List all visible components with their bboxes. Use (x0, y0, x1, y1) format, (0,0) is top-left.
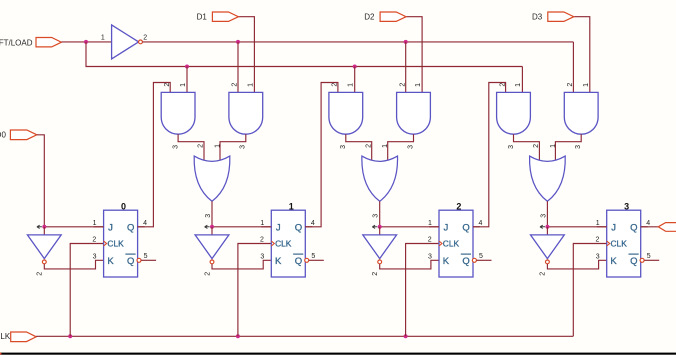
wire: load AND out to OR (stage 3) (555, 134, 581, 160)
svg-text:1: 1 (101, 35, 105, 42)
inverter N2 output bubble (378, 260, 382, 264)
clock wedge, U2 (271, 241, 274, 246)
svg-text:3: 3 (624, 202, 629, 212)
svg-text:3: 3 (260, 253, 264, 260)
svg-text:K: K (107, 256, 114, 267)
wire: D3 to AND (stage 3) (574, 17, 590, 93)
inverter N3 output bubble (546, 260, 550, 264)
wire: CLK riser to FF1 (238, 244, 271, 337)
svg-text:2: 2 (332, 83, 339, 87)
output connector Q3 (clipped at right edge) (658, 223, 676, 232)
wire Q pin stub, U2 (305, 226, 312, 228)
svg-text:J: J (108, 222, 113, 233)
svg-text:2: 2 (567, 83, 574, 87)
svg-text:5: 5 (144, 253, 148, 260)
svg-text:1: 1 (289, 202, 294, 212)
input connector D0 (10, 130, 36, 140)
wire Q pin stub, U4 (641, 226, 648, 228)
svg-text:2: 2 (92, 237, 96, 244)
wire: shift AND out to OR (stage 2) (346, 134, 372, 160)
svg-text:D2: D2 (364, 13, 375, 22)
wire: shift AND out to OR (stage 3) (514, 134, 540, 160)
node J2 junction (378, 225, 382, 229)
clock wedge, U4 (607, 241, 610, 246)
svg-text:1: 1 (428, 220, 432, 227)
svg-text:2: 2 (428, 237, 432, 244)
Q-bar inversion bubble, U1 (137, 258, 141, 262)
window border bar (0, 353, 676, 355)
AND gate U3A shift-enable, stage 3 (497, 92, 531, 134)
wire J pin stub, U4 (597, 226, 607, 228)
svg-text:2: 2 (456, 202, 461, 212)
svg-text:4: 4 (311, 220, 315, 227)
wire: D2 to AND (stage 2) (406, 17, 422, 93)
svg-text:CLK: CLK (611, 238, 628, 248)
input connector D3 (548, 12, 574, 21)
svg-text:3: 3 (205, 214, 212, 218)
wire J pin stub, U1 (94, 226, 104, 228)
svg-text:3: 3 (407, 145, 414, 149)
Q-bar inversion bubble, U3 (472, 258, 476, 262)
inverter N2 (vertical, J to K) (363, 235, 397, 259)
inverter N3 (vertical, J to K) (531, 235, 565, 259)
svg-text:Q: Q (630, 222, 637, 233)
wire: D1 to AND (stage 1) (238, 17, 254, 93)
wire: shift-enable tap to AND (stage 3) (521, 67, 523, 93)
svg-text:1: 1 (93, 220, 97, 227)
svg-text:3: 3 (240, 145, 247, 149)
wire Q pin stub, U1 (138, 226, 145, 228)
svg-text:1: 1 (248, 83, 255, 87)
JK flip-flop U2 (1) (271, 210, 305, 277)
wire: inverter 2 out to K2 (380, 260, 439, 269)
node J0 junction (42, 225, 46, 229)
AND gate U1B load-enable, stage 1 (229, 92, 263, 134)
svg-text:Q: Q (127, 222, 134, 233)
wire: Q2 feedback to AND (473, 83, 506, 227)
svg-text:3: 3 (540, 214, 547, 218)
svg-text:J: J (276, 222, 281, 233)
svg-text:2: 2 (540, 272, 547, 276)
JK flip-flop U1 (0) (104, 210, 138, 277)
wire Q-bar pin stub, U1 (141, 259, 156, 261)
node: shift/load branch junction (84, 40, 88, 44)
svg-text:3: 3 (93, 253, 97, 260)
svg-text:1: 1 (180, 83, 187, 87)
svg-text:2: 2 (143, 35, 147, 42)
svg-text:CLK: CLK (0, 332, 11, 341)
JK flip-flop U3 (2) (439, 210, 473, 277)
inverter U5 (horizontal) (112, 25, 139, 59)
wire-end arrow at node J3 (540, 225, 545, 228)
wire: load-enable tap to AND (stage 3) (572, 42, 574, 93)
svg-text:2: 2 (399, 83, 406, 87)
svg-text:Q: Q (295, 256, 302, 267)
wire: Q3 to output connector (641, 226, 659, 228)
wire-end arrow at node J1 (205, 225, 210, 228)
wire: load-enable tap to AND (stage 2) (405, 42, 407, 93)
wire J pin stub, U2 (261, 226, 271, 228)
AND gate U2B load-enable, stage 2 (397, 92, 431, 134)
wire: Q1 feedback to AND (305, 83, 338, 227)
svg-text:1: 1 (382, 144, 389, 148)
input connector CLK (11, 332, 37, 342)
svg-text:1: 1 (348, 83, 355, 87)
wire Q pin stub, U3 (473, 226, 480, 228)
svg-text:CLK: CLK (443, 238, 460, 248)
svg-text:2: 2 (533, 144, 540, 148)
node CLK bus tap FF0 (68, 334, 72, 338)
AND gate U1A shift-enable, stage 1 (161, 92, 195, 134)
node CLK bus tap FF2 (404, 334, 408, 338)
svg-text:5: 5 (311, 253, 315, 260)
wire: OR out to J3 (546, 201, 548, 227)
svg-text:Q: Q (630, 256, 637, 267)
svg-text:4: 4 (143, 220, 147, 227)
wire: CLK riser to FF0 (70, 244, 103, 337)
svg-text:1: 1 (583, 83, 590, 87)
Q-bar inversion bubble, U4 (640, 258, 644, 262)
input connector SHIFT/LOAD (36, 38, 61, 47)
svg-text:2: 2 (499, 83, 506, 87)
wire-end arrow at node J0 (37, 225, 42, 228)
svg-text:Q: Q (462, 222, 469, 233)
clock wedge, U3 (439, 241, 442, 246)
wire Q-bar pin stub, U2 (309, 259, 324, 261)
wire: J feed FF3 (547, 226, 606, 228)
node on lower bus (stage1 tap) (185, 65, 189, 69)
wire: junction down to inverter 2 (379, 227, 381, 235)
svg-text:1: 1 (215, 144, 222, 148)
node J1 junction (210, 225, 214, 229)
svg-text:FT/LOAD: FT/LOAD (0, 38, 33, 47)
svg-text:3: 3 (575, 145, 582, 149)
wire Q-bar pin stub, U4 (644, 259, 659, 261)
svg-text:2: 2 (232, 83, 239, 87)
wire: J feed FF1 (212, 226, 271, 228)
OR gate mux OR stage 3 (530, 156, 566, 201)
wire J pin stub, U3 (429, 226, 439, 228)
wire: inverter 0 out to K0 (44, 260, 103, 269)
svg-text:D3: D3 (532, 13, 543, 22)
svg-text:1: 1 (515, 83, 522, 87)
wire: CLK riser to FF2 (406, 244, 439, 337)
node on upper bus (stage2 tap) (404, 40, 408, 44)
svg-text:J: J (444, 222, 449, 233)
wire: J feed FF2 (380, 226, 439, 228)
inverter N1 output bubble (210, 260, 214, 264)
svg-text:K: K (275, 256, 282, 267)
svg-text:2: 2 (595, 237, 599, 244)
svg-text:1: 1 (596, 220, 600, 227)
svg-text:0: 0 (121, 202, 126, 212)
wire: CLK bus (36, 335, 573, 337)
svg-text:Q: Q (295, 222, 302, 233)
JK flip-flop U4 (3) (607, 210, 641, 277)
wire: OR out to J2 (379, 201, 381, 227)
svg-text:1: 1 (260, 220, 264, 227)
wire Q-bar pin stub, U3 (477, 259, 492, 261)
inverter N0 output bubble (42, 260, 46, 264)
inverter N0 (vertical, J to K) (27, 235, 61, 259)
node J3 junction (545, 225, 549, 229)
wire: junction down to inverter 3 (546, 227, 548, 235)
wire-end arrow at node J2 (372, 225, 377, 228)
input connector D1 (212, 12, 238, 21)
svg-text:D0: D0 (0, 131, 6, 140)
inverter U5 output bubble (139, 40, 143, 44)
inverter N1 (vertical, J to K) (195, 235, 229, 259)
wire: lower bus (direct SHIFT/LOAD) (86, 42, 522, 67)
svg-text:4: 4 (479, 220, 483, 227)
wire: junction down to inverter 1 (211, 227, 213, 235)
AND gate U3B load-enable, stage 3 (564, 92, 598, 134)
svg-text:CLK: CLK (107, 238, 124, 248)
AND gate U2A shift-enable, stage 2 (329, 92, 363, 134)
wire: shift-enable tap to AND (stage 1) (186, 67, 188, 93)
OR gate mux OR stage 2 (362, 156, 398, 201)
wire: shift-enable tap to AND (stage 2) (354, 67, 356, 93)
svg-text:3: 3 (340, 145, 347, 149)
svg-text:D1: D1 (197, 13, 208, 22)
svg-text:K: K (443, 256, 450, 267)
wire: inverter 1 out to K1 (212, 260, 271, 269)
clock wedge, U1 (104, 241, 107, 246)
wire: load AND out to OR (stage 1) (220, 134, 246, 160)
node on upper bus (stage1 tap) (236, 40, 240, 44)
svg-text:Q: Q (462, 256, 469, 267)
svg-text:2: 2 (164, 83, 171, 87)
svg-text:2: 2 (198, 144, 205, 148)
wire: OR out to J1 (211, 201, 213, 227)
wire: inverter 3 out to K3 (547, 260, 606, 269)
svg-text:2: 2 (372, 272, 379, 276)
svg-text:2: 2 (37, 272, 44, 276)
svg-text:Q: Q (127, 256, 134, 267)
svg-text:1: 1 (415, 83, 422, 87)
input connector D2 (380, 12, 406, 21)
svg-text:2: 2 (204, 272, 211, 276)
wire: shift AND out to OR (stage 1) (178, 134, 204, 160)
svg-text:2: 2 (365, 144, 372, 148)
wire SHIFT/LOAD to inverter input (61, 41, 111, 43)
wire D0 to J of FF0 (37, 135, 45, 227)
wire: Q0 feedback to AND (138, 83, 171, 227)
node on lower bus (stage2 tap) (353, 65, 357, 69)
svg-text:J: J (611, 222, 616, 233)
svg-text:3: 3 (596, 253, 600, 260)
svg-text:2: 2 (260, 237, 264, 244)
wire: upper bus (inverted SHIFT/LOAD) (142, 41, 573, 43)
svg-text:3: 3 (508, 145, 515, 149)
svg-text:3: 3 (428, 253, 432, 260)
svg-text:4: 4 (646, 220, 650, 227)
wire: load-enable tap to AND (stage 1) (237, 42, 239, 93)
svg-text:CLK: CLK (275, 238, 292, 248)
svg-text:5: 5 (479, 253, 483, 260)
wire: CLK riser to FF3 (573, 244, 606, 337)
svg-text:5: 5 (647, 253, 651, 260)
svg-text:K: K (610, 256, 617, 267)
wire: J feed FF0 (44, 226, 103, 228)
Q-bar inversion bubble, U2 (305, 258, 309, 262)
wire: load AND out to OR (stage 2) (388, 134, 414, 160)
svg-text:1: 1 (550, 144, 557, 148)
node CLK bus tap FF1 (236, 334, 240, 338)
wire: junction down to inverter 0 (43, 227, 45, 235)
svg-text:3: 3 (373, 214, 380, 218)
svg-text:3: 3 (173, 145, 180, 149)
OR gate mux OR stage 1 (194, 156, 230, 201)
